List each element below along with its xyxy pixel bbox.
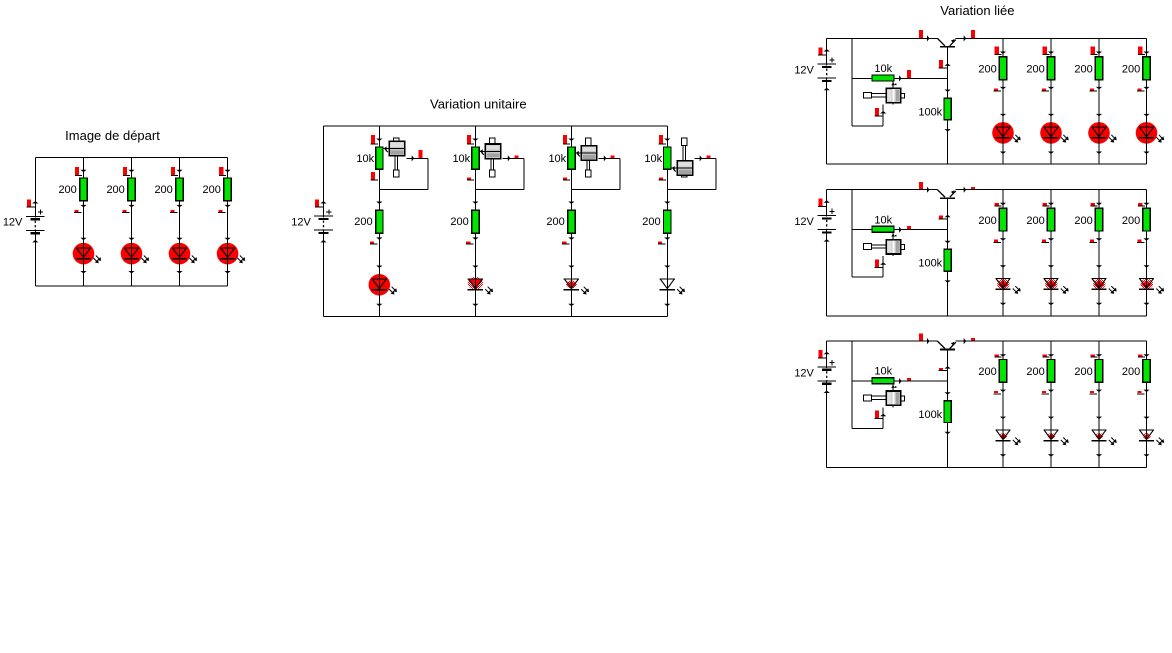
current arrow below LED D3A1 <box>1000 152 1006 155</box>
current arrow above resistor RBA <box>945 90 951 93</box>
wire top rail circuit 3A right of transistor <box>956 37 1147 39</box>
current arrow wiper VR4 <box>700 155 711 161</box>
svg-text:200: 200 <box>1122 64 1140 76</box>
wire wiper loop 3A <box>852 105 883 126</box>
svg-text:200: 200 <box>354 216 372 228</box>
svg-text:10k: 10k <box>874 366 892 378</box>
potentiometer VR3B track 10k <box>872 226 894 232</box>
LED D8 <box>660 274 685 296</box>
svg-text:200: 200 <box>203 184 221 196</box>
svg-text:200: 200 <box>642 216 660 228</box>
current arrow wiper 3A <box>899 70 911 81</box>
wire wiper loop 3C <box>852 407 883 428</box>
svg-text:200: 200 <box>978 64 996 76</box>
current arrow below resistor R3A3 <box>1090 87 1103 91</box>
wire bottom rail circuit 2 <box>324 316 668 318</box>
current arrow battery top <box>27 199 39 207</box>
resistor R5 200 <box>376 210 383 233</box>
resistor R3B1 200 <box>999 208 1006 231</box>
LED D7 <box>564 274 589 296</box>
current arrow below resistor R3B3 <box>1090 238 1103 242</box>
current arrow below resistor R3C4 <box>1137 390 1150 394</box>
transistor QB <box>937 190 955 198</box>
current arrow above resistor R8 <box>664 202 670 205</box>
current arrow below LED D3A3 <box>1096 152 1102 155</box>
current arrow above LED D3C4 <box>1143 417 1149 420</box>
current arrow below LED D3C2 <box>1048 454 1054 457</box>
current arrow above resistor R1 <box>75 167 87 176</box>
current arrow battery 2 top <box>315 199 327 207</box>
wire branch 3 circuit 2 <box>570 126 572 317</box>
current arrow wiper VR2 <box>508 155 519 161</box>
wire wiper loop VR3 <box>571 158 620 189</box>
wire base QC <box>947 350 949 382</box>
wire left branch circuit 3A <box>826 38 828 164</box>
svg-text:Variation unitaire: Variation unitaire <box>430 97 527 112</box>
svg-text:10k: 10k <box>874 63 892 75</box>
current arrow above LED D5 <box>376 266 382 269</box>
resistor R1 200 <box>80 178 87 201</box>
wire base QA <box>947 47 949 79</box>
wire branch 2 circuit 1 <box>131 158 133 286</box>
wire wiper loop 3B <box>852 256 883 277</box>
LED D3C4 <box>1139 424 1164 446</box>
current arrow below resistor R3C2 <box>1042 390 1055 394</box>
wire 100k branch 3A <box>947 78 949 164</box>
potentiometer VR3 slider knob <box>575 138 597 177</box>
LED D3C2 <box>1043 424 1068 446</box>
current arrow below resistor R5 <box>370 237 383 244</box>
wire branch 3 circuit 1 <box>179 158 181 286</box>
potentiometer VR2 slider knob <box>479 138 501 177</box>
svg-text:10k: 10k <box>452 153 470 165</box>
current arrow below LED D3A4 <box>1143 152 1149 155</box>
wire wiper to transistor base 3B <box>894 229 948 231</box>
wire bottom rail circuit 3C <box>827 467 1147 469</box>
current arrow battery 3B bottom <box>824 239 830 242</box>
current arrow above LED D3C3 <box>1096 417 1102 420</box>
current arrow base QB <box>939 215 951 220</box>
svg-text:200: 200 <box>1122 215 1140 227</box>
wire left branch circuit 3B <box>826 190 828 316</box>
potentiometer VR2 track 10k <box>472 147 479 169</box>
current arrow above resistor R7 <box>568 202 574 205</box>
svg-text:10k: 10k <box>356 153 374 165</box>
wire branch 2 circuit 3A <box>1050 38 1052 164</box>
battery B3B 12V <box>817 209 836 234</box>
svg-text:200: 200 <box>1074 215 1092 227</box>
wire 100k branch 3C <box>947 381 949 467</box>
wire 100k branch 3B <box>947 230 949 316</box>
wire left branch circuit 3C <box>826 341 828 467</box>
current arrow below resistor R3B4 <box>1137 238 1150 242</box>
current arrow above LED D3 <box>176 238 182 241</box>
current arrow below LED D3C4 <box>1143 454 1149 457</box>
current arrow below resistor RBA <box>945 129 951 132</box>
battery B3A 12V <box>817 57 836 82</box>
current arrow wiper loop 3B <box>875 259 887 267</box>
current arrow above resistor R3C4 <box>1138 354 1150 357</box>
svg-text:200: 200 <box>1122 366 1140 378</box>
current arrow above potentiometer VR3 <box>563 135 575 144</box>
resistor R3B3 200 <box>1095 208 1102 231</box>
current arrow battery 3A bottom <box>824 88 830 91</box>
current arrow emitter QA <box>964 30 975 41</box>
svg-text:200: 200 <box>1074 64 1092 76</box>
svg-text:Image de départ: Image de départ <box>65 128 160 143</box>
wire potentiometer feed circuit 3C <box>851 341 853 428</box>
svg-text:12V: 12V <box>3 217 23 229</box>
current arrow below resistor R3B1 <box>994 238 1007 242</box>
resistor R3A4 200 <box>1143 57 1150 80</box>
current arrow battery 3C top <box>818 350 830 358</box>
wire branch 3 circuit 3C <box>1098 341 1100 467</box>
wire branch 1 circuit 3A <box>1002 38 1004 164</box>
svg-text:200: 200 <box>450 216 468 228</box>
current arrow wiper VR3 <box>604 155 615 161</box>
current arrow above LED D3A2 <box>1048 114 1054 117</box>
current arrow emitter QB <box>964 187 975 193</box>
LED D3C1 <box>995 424 1020 446</box>
current arrow above resistor R5 <box>376 202 382 205</box>
resistor R3A2 200 <box>1047 57 1054 80</box>
current arrow wiper 3B <box>899 226 911 233</box>
current arrow emitter QC <box>964 338 975 344</box>
current arrow below resistor R3A1 <box>994 87 1007 91</box>
wire bottom rail circuit 3B <box>827 315 1147 317</box>
current arrow above resistor R3A1 <box>995 47 1007 55</box>
wire branch 2 circuit 3C <box>1050 341 1052 467</box>
current arrow below LED D3B2 <box>1048 303 1054 306</box>
current arrow above resistor R6 <box>472 202 478 205</box>
current arrow above resistor RBB <box>945 241 951 244</box>
wire branch 3 circuit 3B <box>1098 190 1100 316</box>
current arrow above resistor R3C3 <box>1091 354 1103 357</box>
current arrow above LED D4 <box>225 238 231 241</box>
svg-text:100k: 100k <box>918 106 942 118</box>
svg-text:200: 200 <box>106 184 124 196</box>
svg-text:12V: 12V <box>794 367 814 379</box>
current arrow below potentiometer VR4 <box>659 177 666 180</box>
current arrow above resistor R3B3 <box>1091 203 1103 206</box>
wire potentiometer feed circuit 3A <box>851 38 853 125</box>
current arrow wiper loop 3A <box>875 108 887 116</box>
potentiometer VR3C slider knob <box>864 384 905 408</box>
wire wiper to transistor base 3C <box>894 380 948 382</box>
LED D5 <box>369 274 398 296</box>
current arrow below LED D6 <box>472 304 478 307</box>
svg-text:100k: 100k <box>918 409 942 421</box>
current arrow below LED D4 <box>225 271 231 274</box>
svg-text:12V: 12V <box>794 65 814 77</box>
wire branch 2 circuit 3B <box>1050 190 1052 316</box>
LED D3A2 <box>1040 122 1069 144</box>
LED D4 lit <box>217 242 246 264</box>
resistor R3B2 200 <box>1047 208 1054 231</box>
svg-text:200: 200 <box>978 366 996 378</box>
current arrow above LED D3C2 <box>1048 417 1054 420</box>
svg-text:100k: 100k <box>918 258 942 270</box>
current arrow above potentiometer VR4 <box>659 135 671 144</box>
wire left branch circuit 2 <box>323 126 325 317</box>
wire branch 1 circuit 1 <box>83 158 85 286</box>
current arrow above resistor R3A4 <box>1138 47 1150 55</box>
svg-text:200: 200 <box>1074 366 1092 378</box>
current arrow above LED D7 <box>568 266 574 269</box>
wire branch 2 circuit 2 <box>474 126 476 317</box>
svg-text:10k: 10k <box>644 153 662 165</box>
current arrow below LED D1 <box>80 271 86 274</box>
current arrow battery 3C bottom <box>824 391 830 394</box>
resistor RBB 100k <box>944 249 951 271</box>
current arrow above LED D3A3 <box>1096 114 1102 117</box>
wire left branch circuit 1 <box>34 158 36 286</box>
current arrow above LED D1 <box>80 238 86 241</box>
current arrow below resistor R3A2 <box>1042 87 1055 91</box>
svg-text:200: 200 <box>1026 215 1044 227</box>
svg-text:200: 200 <box>58 184 76 196</box>
current arrow below LED D3B1 <box>1000 303 1006 306</box>
current arrow below LED D5 <box>376 304 382 307</box>
current arrow above potentiometer VR2 <box>467 135 479 144</box>
wire branch 4 circuit 1 <box>227 158 229 286</box>
wire potentiometer left terminal 3B <box>852 229 872 231</box>
current arrow below resistor R2 <box>122 205 135 213</box>
current arrow above LED D3B4 <box>1143 265 1149 268</box>
transistor QA <box>937 38 955 46</box>
current arrow above resistor R3 <box>171 167 183 176</box>
current arrow below resistor RBB <box>945 280 951 283</box>
wire bottom rail circuit 3A <box>827 163 1147 165</box>
current arrow below LED D3 <box>176 271 182 274</box>
potentiometer VR1 track 10k <box>376 147 383 169</box>
svg-text:200: 200 <box>978 215 996 227</box>
resistor R3C2 200 <box>1047 360 1054 383</box>
current arrow above resistor R2 <box>123 167 135 176</box>
resistor R3C3 200 <box>1095 360 1102 383</box>
current arrow battery 2 bottom <box>320 240 326 243</box>
current arrow below potentiometer VR1 <box>371 172 378 180</box>
battery B2 12V <box>314 209 333 234</box>
current arrow below LED D3B3 <box>1096 303 1102 306</box>
current arrow above LED D3B3 <box>1096 265 1102 268</box>
wire potentiometer left terminal 3C <box>852 380 872 382</box>
svg-text:200: 200 <box>1026 366 1044 378</box>
resistor R3A1 200 <box>999 57 1006 80</box>
battery B1 12V <box>26 210 45 235</box>
wire top rail circuit 2 <box>324 125 668 127</box>
wire branch 4 circuit 3B <box>1146 190 1148 316</box>
transistor QC <box>937 341 955 349</box>
svg-text:10k: 10k <box>548 153 566 165</box>
potentiometer VR3A slider knob <box>864 81 905 105</box>
current arrow below LED D3B4 <box>1143 303 1149 306</box>
resistor R3A3 200 <box>1095 57 1102 80</box>
current arrow above resistor R3A2 <box>1043 47 1055 55</box>
current arrow above resistor R4 <box>219 167 231 176</box>
svg-text:12V: 12V <box>794 216 814 228</box>
current arrow above LED D3A4 <box>1143 114 1149 117</box>
current arrow collector QB <box>919 182 930 193</box>
current arrow collector QC <box>919 334 930 345</box>
current arrow above resistor R3A3 <box>1091 47 1103 55</box>
resistor R6 200 <box>472 210 479 233</box>
wire branch 1 circuit 2 <box>378 126 380 317</box>
wire branch 3 circuit 3A <box>1098 38 1100 164</box>
current arrow below resistor R3C3 <box>1090 390 1103 394</box>
current arrow above LED D6 <box>472 266 478 269</box>
svg-text:200: 200 <box>546 216 564 228</box>
current arrow below resistor RBC <box>945 432 951 435</box>
LED D3B4 <box>1139 273 1164 295</box>
current arrow below LED D2 <box>128 271 134 274</box>
LED D3B1 <box>995 273 1020 295</box>
current arrow below potentiometer VR2 <box>467 177 474 180</box>
wire wiper loop VR1 <box>379 158 428 189</box>
potentiometer VR1 slider knob <box>383 138 405 177</box>
current arrow below resistor R7 <box>562 237 575 244</box>
potentiometer VR3C track 10k <box>872 378 894 384</box>
current arrow wiper VR1 <box>412 150 423 162</box>
svg-text:Variation liée: Variation liée <box>940 3 1014 18</box>
current arrow below resistor R3 <box>170 205 183 213</box>
resistor R8 200 <box>664 210 671 233</box>
current arrow base QA <box>939 60 951 68</box>
wire top rail circuit 3B left of transistor <box>827 189 938 191</box>
wire top rail circuit 1 <box>35 157 227 159</box>
LED D1 lit <box>73 242 102 264</box>
current arrow below resistor R8 <box>658 237 671 244</box>
current arrow below LED D3A2 <box>1048 152 1054 155</box>
LED D3 lit <box>169 242 198 264</box>
wire top rail circuit 3C left of transistor <box>827 340 938 342</box>
wire potentiometer left terminal 3A <box>852 77 872 79</box>
resistor RBC 100k <box>944 401 951 423</box>
current arrow battery 3B top <box>818 199 830 207</box>
LED D3A4 <box>1136 122 1165 144</box>
resistor R3C4 200 <box>1143 360 1150 383</box>
wire potentiometer feed circuit 3B <box>851 190 853 277</box>
wire wiper loop VR2 <box>475 158 524 189</box>
current arrow below resistor R6 <box>466 237 479 244</box>
current arrow above resistor R3B2 <box>1043 203 1055 206</box>
current arrow below resistor R4 <box>218 205 231 213</box>
current arrow above resistor R3C1 <box>995 354 1007 357</box>
current arrow above LED D3B1 <box>1000 265 1006 268</box>
current arrow wiper loop 3C <box>875 411 887 419</box>
resistor R3C1 200 <box>999 360 1006 383</box>
wire branch 4 circuit 3A <box>1146 38 1148 164</box>
current arrow above resistor RBC <box>945 392 951 395</box>
current arrow base QC <box>939 366 951 371</box>
current arrow below potentiometer VR3 <box>563 177 570 180</box>
battery B3C 12V <box>817 360 836 385</box>
LED D6 <box>468 274 493 296</box>
current arrow below LED D3C3 <box>1096 454 1102 457</box>
svg-text:10k: 10k <box>874 214 892 226</box>
svg-text:12V: 12V <box>291 217 311 229</box>
wire top rail circuit 3B right of transistor <box>956 189 1147 191</box>
current arrow above resistor R3B4 <box>1138 203 1150 206</box>
wire branch 4 circuit 2 <box>666 126 668 317</box>
current arrow below LED D3C1 <box>1000 454 1006 457</box>
current arrow above LED D2 <box>128 238 134 241</box>
current arrow battery bottom <box>32 240 38 243</box>
resistor RBA 100k <box>944 98 951 120</box>
LED D3C3 <box>1091 424 1116 446</box>
current arrow below LED D8 <box>664 304 670 307</box>
LED D3A1 <box>992 122 1021 144</box>
potentiometer VR3B slider knob <box>864 232 905 256</box>
current arrow above LED D3C1 <box>1000 417 1006 420</box>
svg-text:200: 200 <box>154 184 172 196</box>
wire wiper loop VR4 <box>667 158 716 189</box>
current arrow collector QA <box>919 30 930 42</box>
wire branch 1 circuit 3B <box>1002 190 1004 316</box>
current arrow below resistor R1 <box>74 205 87 213</box>
current arrow above resistor R3C2 <box>1043 354 1055 357</box>
potentiometer VR3 track 10k <box>568 147 575 169</box>
current arrow battery 3A top <box>818 47 830 55</box>
potentiometer VR4 slider knob <box>671 138 693 177</box>
svg-text:200: 200 <box>1026 64 1044 76</box>
current arrow below resistor R3B2 <box>1042 238 1055 242</box>
current arrow below resistor R3C1 <box>994 390 1007 394</box>
wire base QB <box>947 198 949 230</box>
resistor R3B4 200 <box>1143 208 1150 231</box>
LED D2 lit <box>121 242 150 264</box>
wire top rail circuit 3C right of transistor <box>956 340 1147 342</box>
current arrow below LED D7 <box>568 304 574 307</box>
LED D3B2 <box>1043 273 1068 295</box>
current arrow above potentiometer VR1 <box>371 135 383 144</box>
wire bottom rail circuit 1 <box>35 285 227 287</box>
resistor R7 200 <box>568 210 575 233</box>
potentiometer VR3A track 10k <box>872 75 894 81</box>
LED D3A3 <box>1088 122 1117 144</box>
resistor R4 200 <box>224 178 231 201</box>
current arrow above LED D3A1 <box>1000 114 1006 117</box>
current arrow wiper 3C <box>899 378 911 384</box>
resistor R3 200 <box>176 178 183 201</box>
current arrow above LED D3B2 <box>1048 265 1054 268</box>
current arrow below resistor R3A4 <box>1137 87 1150 91</box>
resistor R2 200 <box>128 178 135 201</box>
wire branch 4 circuit 3C <box>1146 341 1148 467</box>
current arrow above resistor R3B1 <box>995 203 1007 206</box>
potentiometer VR4 track 10k <box>664 147 671 169</box>
wire top rail circuit 3A left of transistor <box>827 37 938 39</box>
wire branch 1 circuit 3C <box>1002 341 1004 467</box>
LED D3B3 <box>1091 273 1116 295</box>
current arrow above LED D8 <box>664 266 670 269</box>
wire wiper to transistor base 3A <box>894 77 948 79</box>
